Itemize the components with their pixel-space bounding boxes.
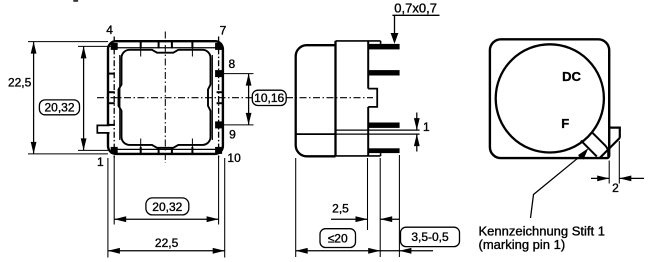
svg-text:≤20: ≤20: [328, 231, 348, 245]
svg-text:22,5: 22,5: [8, 75, 32, 89]
svg-text:4: 4: [106, 23, 113, 37]
svg-text:DC: DC: [562, 69, 581, 84]
svg-text:(marking pin 1): (marking pin 1): [479, 237, 566, 252]
svg-text:2,5: 2,5: [332, 202, 349, 216]
svg-text:10: 10: [227, 151, 241, 165]
svg-text:3,5-0,5: 3,5-0,5: [411, 230, 449, 244]
svg-text:20,32: 20,32: [152, 200, 182, 214]
svg-text:9: 9: [229, 127, 236, 141]
svg-text:0,7x0,7: 0,7x0,7: [394, 0, 437, 15]
svg-text:2: 2: [612, 181, 619, 195]
svg-text:22,5: 22,5: [155, 236, 179, 250]
svg-text:10,16: 10,16: [254, 91, 284, 105]
svg-text:F: F: [561, 116, 569, 131]
svg-text:7: 7: [220, 23, 227, 37]
svg-text:1: 1: [97, 155, 104, 169]
svg-text:20,32: 20,32: [44, 101, 74, 115]
svg-text:8: 8: [229, 57, 236, 71]
svg-text:1: 1: [423, 120, 430, 134]
